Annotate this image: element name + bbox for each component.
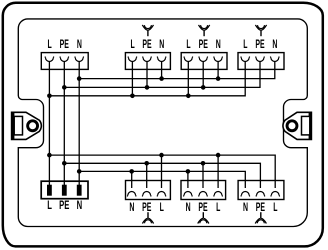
svg-text:N: N <box>186 201 191 214</box>
terminal block X6 (bottom output 1) <box>126 181 171 200</box>
svg-text:N: N <box>129 201 134 214</box>
wire stub L of terminal X7 <box>217 155 219 188</box>
svg-text:PE: PE <box>198 201 208 214</box>
junction top PE bus at X3 <box>201 85 206 90</box>
wire stub N of terminal X7 <box>187 171 189 188</box>
svg-text:N: N <box>77 200 83 213</box>
svg-text:PE: PE <box>256 201 266 214</box>
svg-text:L: L <box>216 201 220 214</box>
outgoing feed symbol of X6 <box>142 212 153 223</box>
outgoing feed symbol of X8 <box>255 212 266 223</box>
svg-text:L: L <box>160 201 164 214</box>
outgoing feed symbol of X3 <box>199 25 210 36</box>
wire stub N of terminal X3 <box>217 62 219 79</box>
junction top PE bus at X2 <box>145 85 150 90</box>
svg-text:N: N <box>272 38 277 51</box>
svg-text:PE: PE <box>60 38 70 51</box>
junction top N bus at X3 <box>216 76 221 81</box>
wire stub PE of terminal X3 <box>202 62 204 88</box>
svg-text:L: L <box>186 38 190 51</box>
terminal block X8 (bottom output 3) <box>238 181 284 200</box>
left mounting lug <box>12 112 42 139</box>
junction top L bus at X1 <box>47 94 52 99</box>
wire stub PE of terminal X7 <box>202 163 204 188</box>
wire stub N of terminal X6 <box>131 171 133 188</box>
bottom bus wire PE <box>64 163 260 188</box>
wire L from terminal X1 down to feed-in block X5 <box>48 62 50 186</box>
outgoing feed symbol of X4 <box>255 25 266 36</box>
wire N from terminal X1 down to feed-in block X5 <box>78 62 80 186</box>
outgoing feed symbol of X2 <box>142 25 153 36</box>
svg-text:N: N <box>243 201 248 214</box>
junction bottom L bus at X6 <box>159 153 164 158</box>
junction bottom L bus at X5 <box>47 153 52 158</box>
right mounting lug <box>283 112 311 139</box>
svg-text:L: L <box>243 38 247 51</box>
junction top L bus at X2 <box>130 94 135 99</box>
junction bottom PE bus at X6 <box>144 161 149 166</box>
terminal block X5 (feed-in, bottom left) <box>41 181 88 199</box>
terminal block X3 (top output 3) <box>181 53 227 70</box>
junction bottom L bus at X7 <box>216 153 221 158</box>
svg-text:L: L <box>47 200 52 213</box>
junction bottom PE bus at X5 <box>62 161 67 166</box>
top bus wire PE <box>64 62 260 88</box>
wire stub L of terminal X3 <box>187 62 189 96</box>
svg-text:PE: PE <box>255 38 265 51</box>
top bus wire N <box>79 62 275 79</box>
wire stub N of terminal X2 <box>161 62 163 79</box>
terminal block X1 (top output 1) <box>41 53 88 70</box>
svg-text:PE: PE <box>199 38 209 51</box>
wire stub PE of terminal X2 <box>146 62 148 88</box>
svg-text:PE: PE <box>142 38 152 51</box>
top bus wire L <box>49 62 245 96</box>
junction top L bus at X3 <box>186 94 191 99</box>
svg-text:N: N <box>159 38 164 51</box>
enclosure inner outline with lug notches <box>18 19 307 227</box>
wire stub L of terminal X6 <box>161 155 163 188</box>
svg-text:L: L <box>273 201 277 214</box>
svg-text:N: N <box>216 38 221 51</box>
junction top PE bus at X1 <box>62 85 67 90</box>
terminal block X2 (top output 2) <box>125 53 170 70</box>
svg-text:N: N <box>77 38 82 51</box>
svg-text:L: L <box>130 38 134 51</box>
terminal block X4 (top output 4) <box>238 53 284 70</box>
svg-text:PE: PE <box>59 200 69 213</box>
outgoing feed symbol of X7 <box>198 212 209 223</box>
wire stub PE of terminal X6 <box>146 163 148 188</box>
junction bottom N bus at X7 <box>186 169 191 174</box>
junction top N bus at X2 <box>159 76 164 81</box>
bottom bus wire N <box>79 171 245 188</box>
junction bottom PE bus at X7 <box>201 161 206 166</box>
wire PE from terminal X1 down to feed-in block X5 <box>63 62 65 186</box>
junction bottom N bus at X6 <box>129 169 134 174</box>
junction bottom N bus at X5 <box>77 169 82 174</box>
wire stub L of terminal X2 <box>131 62 133 96</box>
svg-text:PE: PE <box>142 201 152 214</box>
terminal block X7 (bottom output 2) <box>181 181 226 200</box>
bottom bus wire L <box>49 155 275 188</box>
junction top N bus at X1 <box>77 76 82 81</box>
svg-text:L: L <box>47 38 51 51</box>
